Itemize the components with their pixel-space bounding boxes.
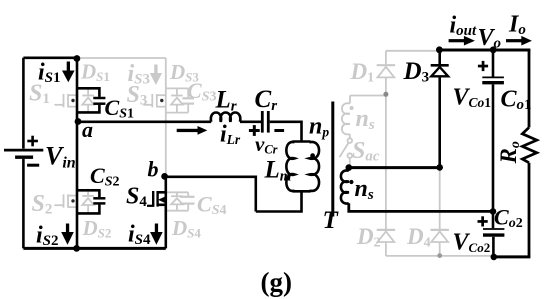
inductor gray winding n_s (upper secondary) (342, 103, 350, 134)
wire C_r to transformer (270, 122, 302, 141)
wire node b to transformer return (166, 177, 256, 212)
arrow i_S2 (61, 224, 74, 245)
minus sign battery (27, 164, 39, 167)
inductor L_r (211, 113, 240, 122)
diode D4 leg (gray) (431, 168, 449, 256)
diode D_S1 body diode of S1 (82, 88, 94, 112)
svg-text:a: a (82, 117, 93, 142)
wire node a horizontal to resonant tank (77, 121, 211, 124)
arrow i_S4 (150, 224, 163, 245)
node polarity dot n_p (310, 153, 315, 158)
plus sign battery (27, 136, 38, 147)
arrow I_o (506, 36, 532, 46)
wire gray top rail a-leg to S3 leg (77, 57, 166, 59)
transformer core (331, 102, 334, 217)
transistor S3 (gray MOSFET) (143, 94, 166, 107)
resistor R_o zigzag (522, 128, 537, 163)
wire S4 leg vertical (165, 177, 168, 249)
node dark dot inside S1 (71, 99, 74, 102)
plus sign C_r (249, 125, 260, 136)
transistor S4 (black MOSFET) (147, 191, 166, 207)
wire load leg right top (528, 50, 531, 128)
wire n_s bottom to capacitor midpoint (349, 203, 493, 211)
node capacitor midpoint (490, 208, 497, 215)
node gray junction D4 bottom (437, 253, 442, 258)
diode D3 (black) (431, 50, 449, 168)
node polarity dot n_s black (349, 180, 353, 184)
diode D_S3 body diode of S3 (166, 88, 188, 112)
wire top-left rail (23, 56, 78, 59)
node bottom output junction (491, 254, 498, 261)
wire left vertical to battery top (22, 58, 25, 149)
capacitor C_o1 leg (482, 50, 504, 211)
node gray junction D1-D2 midpoint (383, 92, 388, 97)
wire gray bottom rectifier rail (386, 255, 494, 257)
wire n_s top to D3/D4 midpoint (349, 168, 440, 171)
node junction dot top-left rail (74, 55, 81, 62)
wire load leg right bottom (528, 163, 531, 257)
capacitor C_S1 branch (black) (77, 88, 105, 112)
node dark dot inside S3 (160, 99, 163, 102)
capacitor C_r (262, 111, 268, 133)
wire primary bottom bar (292, 190, 310, 193)
minus sign C_r (274, 129, 284, 132)
node bottom-left junction (73, 245, 80, 252)
transistor S1 gray symbol (55, 94, 78, 107)
node a (75, 118, 82, 125)
wire bottom rail (23, 247, 165, 250)
capacitor C_o2 leg (483, 211, 504, 257)
wire L_r to C_r (240, 121, 261, 124)
node gray polarity dot upper n_s (350, 106, 354, 110)
diode D2 leg (gray) (377, 94, 395, 256)
svg-text:T: T (323, 207, 340, 234)
arrow i_S1 (62, 62, 75, 83)
switch S_ac (gray, open) (340, 134, 353, 166)
svg-text:b: b (148, 157, 159, 182)
battery V_in (4, 150, 43, 157)
arrow i_out (449, 36, 475, 46)
wire gray secondary top lead (350, 95, 386, 97)
inductor primary winding n_p (bumps right) (309, 142, 319, 191)
plus sign C_o1 (478, 61, 488, 71)
plus sign C_o2 (478, 216, 488, 226)
diode D_S4 body diode of S4 (gray) with branch (166, 192, 188, 210)
wire primary top bar (292, 140, 310, 143)
arrow i_S3 (gray current arrow) (150, 65, 162, 86)
wire left vertical battery bottom to bottom rail (22, 159, 25, 249)
capacitor C_S4 (gray) (180, 192, 195, 210)
capacitor C_S3 (gray) (182, 88, 194, 112)
diode D_S2 body diode of S2 (82, 189, 94, 213)
inductor secondary winding n_s (black, lower) (341, 170, 349, 203)
wire bottom output rail (494, 255, 531, 258)
wire top output rail (439, 49, 530, 52)
inductor L_m (magnetizing, bumps left) (286, 142, 294, 191)
wire gray S3-leg vertical (165, 58, 167, 177)
node V_o junction (490, 46, 497, 53)
transistor S2 gray symbol (55, 194, 78, 207)
node n_s top junction (346, 164, 353, 171)
node top rail left junction (436, 46, 443, 53)
capacitor C_S2 branch (black) (77, 190, 105, 213)
svg-text:(g): (g) (261, 267, 292, 297)
node b (161, 173, 168, 180)
node D3/D4 midpoint (436, 164, 443, 171)
diode D1 leg (gray) (377, 51, 440, 95)
node dark dot inside S2 (71, 199, 74, 202)
wire primary bottom stub down-left (256, 191, 302, 211)
wire leg1 vertical (S1/S2 leg) (76, 58, 79, 249)
arrow i_Lr (177, 126, 208, 135)
